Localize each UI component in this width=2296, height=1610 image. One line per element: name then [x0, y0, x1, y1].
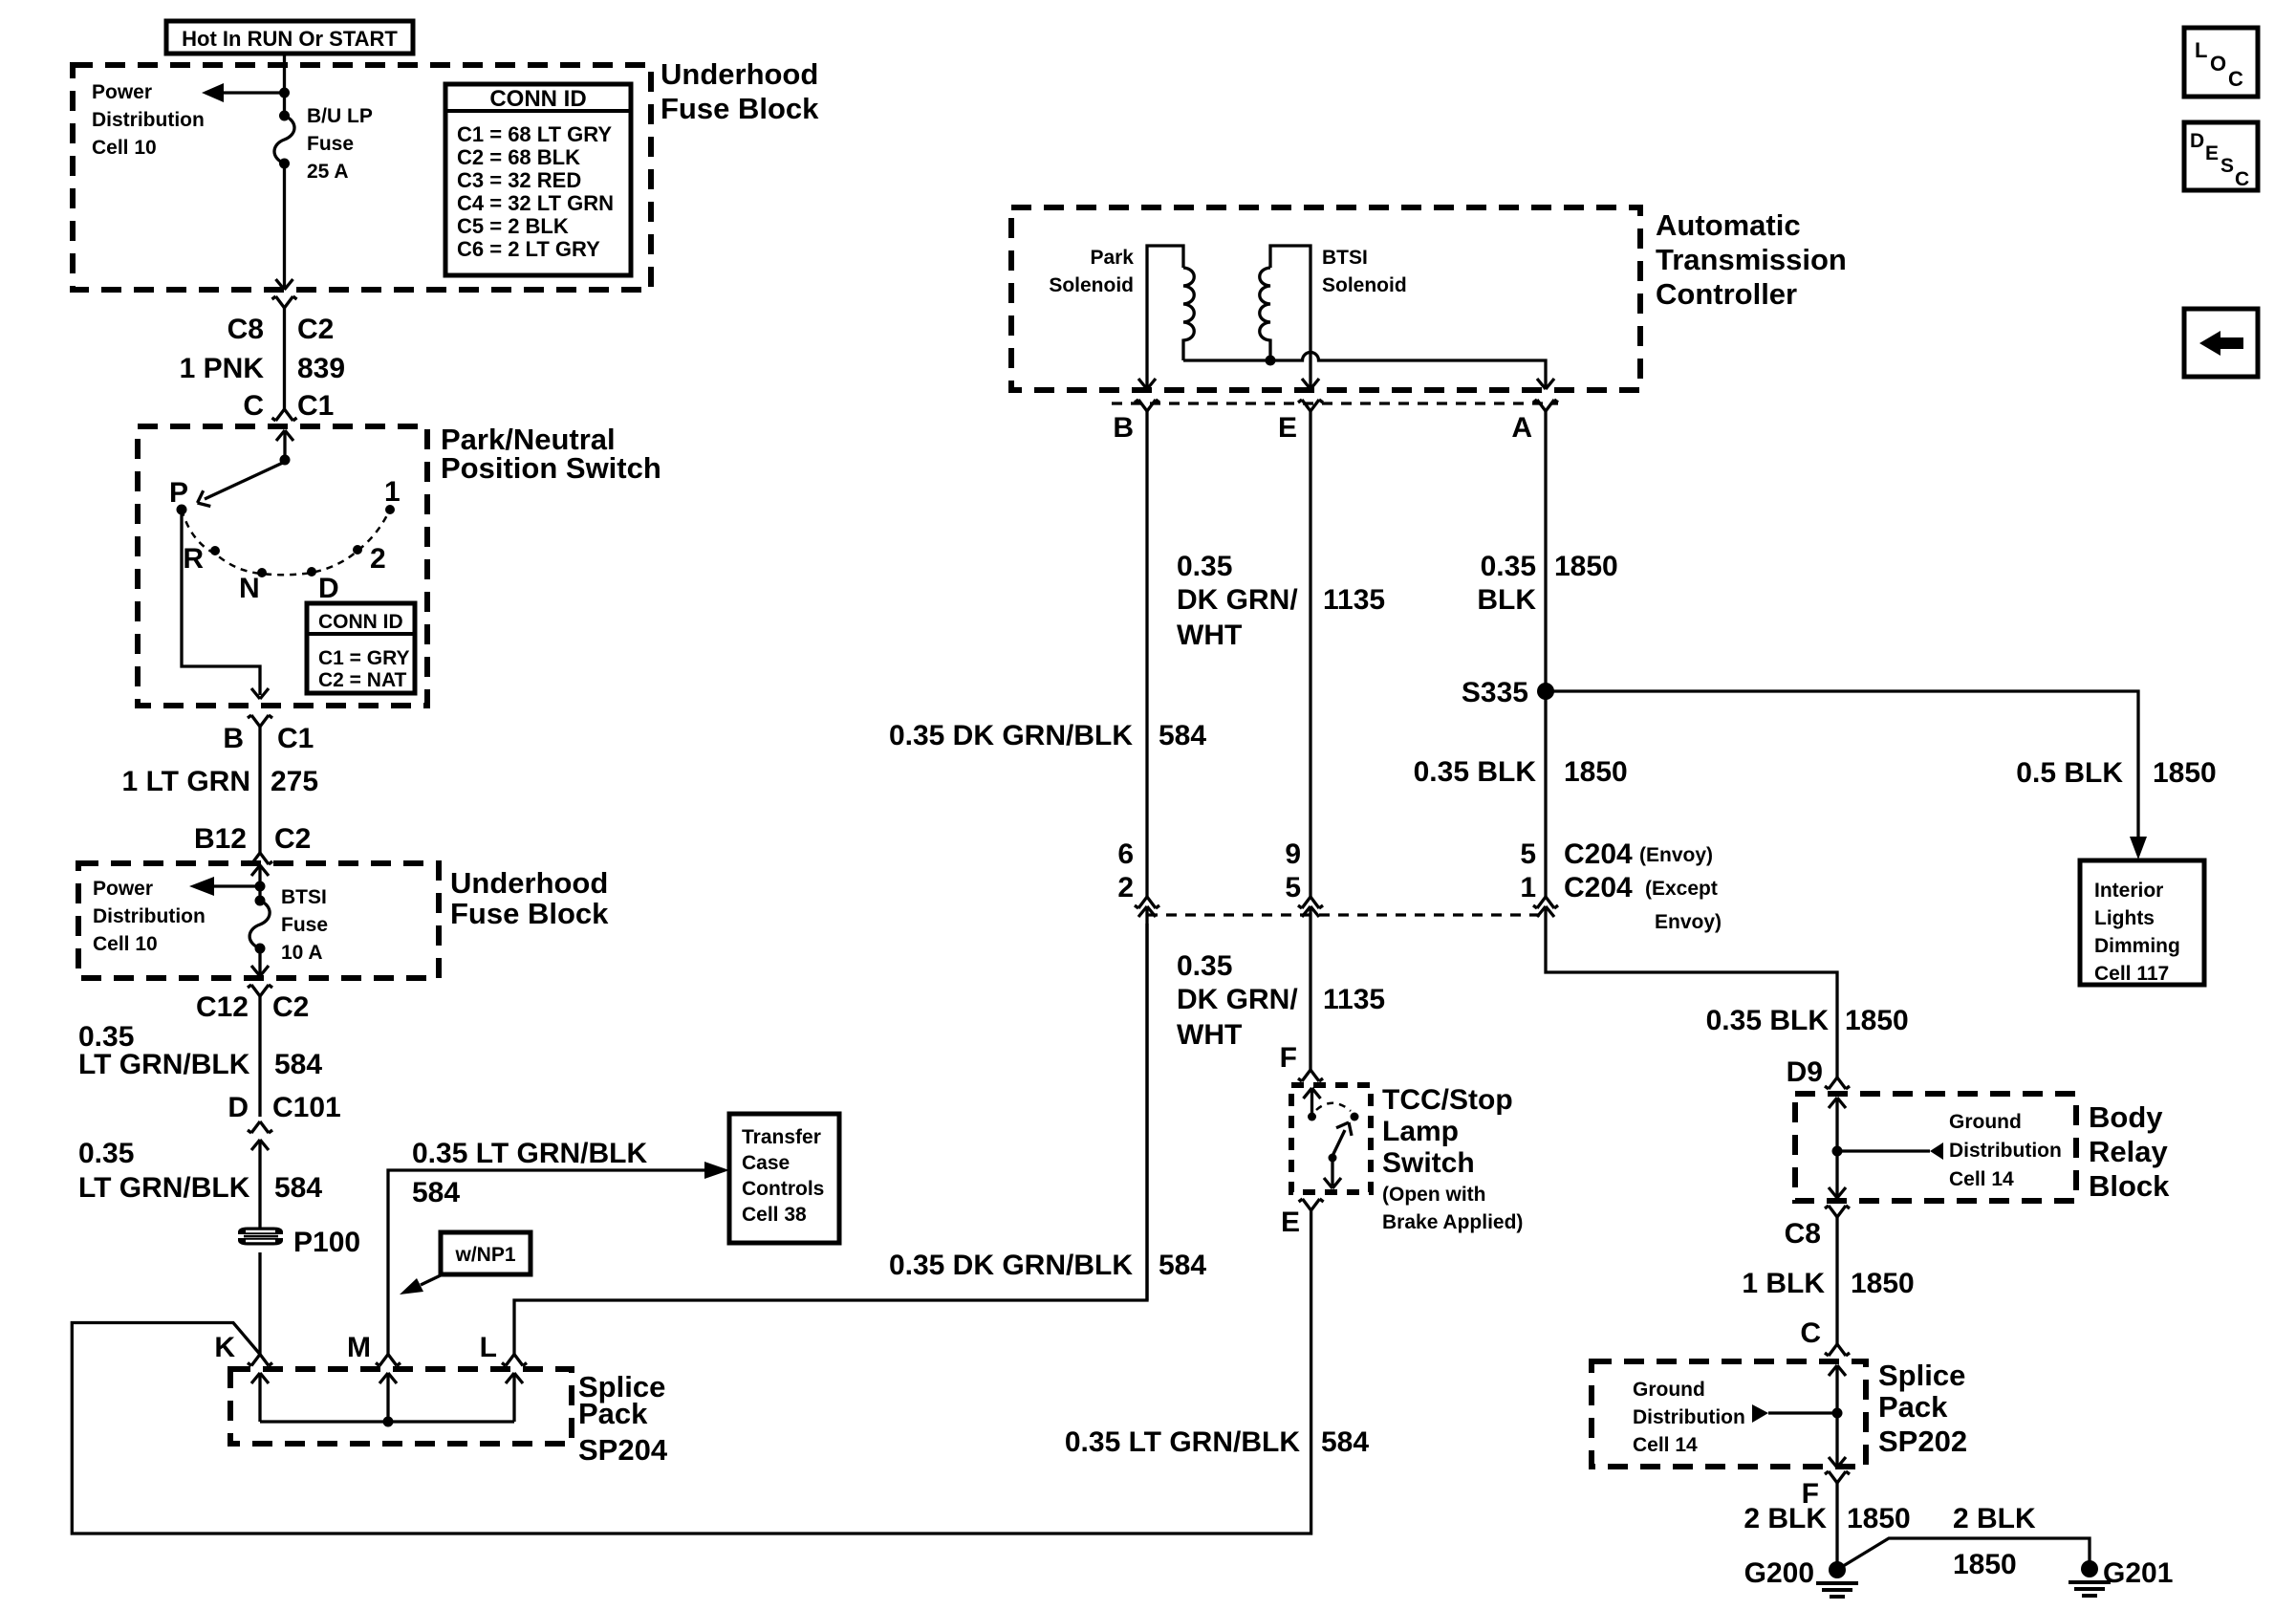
svg-text:DK GRN/: DK GRN/	[1177, 984, 1298, 1015]
svg-text:C4 = 32 LT GRN: C4 = 32 LT GRN	[457, 191, 614, 215]
connector fork pin A	[1533, 400, 1558, 411]
svg-text:C1: C1	[277, 723, 314, 754]
svg-text:CONN ID: CONN ID	[318, 611, 403, 633]
svg-text:1850: 1850	[1554, 551, 1618, 582]
svg-text:1135: 1135	[1323, 584, 1385, 616]
svg-text:B12: B12	[194, 823, 247, 855]
connector B/C1 fork	[248, 715, 272, 727]
svg-text:2 BLK: 2 BLK	[1953, 1503, 2036, 1534]
nav icon DESC	[2184, 122, 2258, 190]
label: 0.35 DK GRN/ WHT | 1135 (E wire lower)	[1177, 950, 1385, 1051]
TCC switch contacts and blade	[1308, 1113, 1316, 1121]
svg-text:0.35 LT GRN/BLK: 0.35 LT GRN/BLK	[1065, 1426, 1300, 1458]
svg-text:D9: D9	[1787, 1056, 1823, 1088]
svg-text:CONN ID: CONN ID	[489, 86, 586, 112]
svg-text:Fuse Block: Fuse Block	[450, 897, 609, 930]
label: BTSI Fuse 10 A	[281, 886, 328, 964]
svg-text:584: 584	[274, 1172, 322, 1204]
svg-text:Cell 14: Cell 14	[1949, 1168, 2014, 1190]
svg-text:(Open with: (Open with	[1382, 1184, 1486, 1206]
connector B12/C2 fork	[248, 853, 272, 864]
svg-text:M: M	[347, 1332, 371, 1363]
contact 2	[353, 545, 362, 555]
svg-text:1135: 1135	[1323, 984, 1385, 1015]
svg-text:Fuse: Fuse	[281, 914, 328, 936]
svg-text:G201: G201	[2103, 1557, 2173, 1589]
svg-text:Power: Power	[92, 81, 152, 103]
svg-text:839: 839	[297, 353, 345, 384]
nav icon LOC	[2184, 28, 2258, 97]
svg-text:SP204: SP204	[578, 1433, 668, 1467]
wire: branch to G201	[1840, 1538, 2090, 1569]
label: Ground Distribution Cell 14 (SP202)	[1633, 1379, 1745, 1456]
arrow+wire: branch from ground distribution into SP202 junction	[1752, 1404, 1768, 1423]
svg-text:C2 = 68 BLK: C2 = 68 BLK	[457, 145, 580, 169]
svg-text:O: O	[2210, 52, 2226, 76]
wire: fuse to block exit	[258, 948, 261, 974]
svg-text:9: 9	[1285, 838, 1301, 870]
svg-text:w/NP1: w/NP1	[454, 1244, 515, 1266]
svg-text:Cell 10: Cell 10	[92, 137, 157, 159]
arrow: wire enters TCC switch	[1304, 1088, 1321, 1099]
svg-text:1: 1	[1520, 872, 1536, 903]
svg-text:C: C	[2228, 67, 2243, 91]
svg-text:C204: C204	[1564, 872, 1633, 903]
splice pack SP204 (dashed box)	[230, 1369, 572, 1444]
svg-text:1850: 1850	[1845, 1005, 1909, 1036]
contact P	[177, 505, 187, 515]
svg-text:L: L	[480, 1332, 497, 1363]
wire: P100 to splice pack K	[258, 1252, 261, 1355]
svg-text:Underhood: Underhood	[450, 866, 608, 900]
splice pack SP202 (dashed box)	[1592, 1361, 1866, 1467]
svg-text:Solenoid: Solenoid	[1322, 274, 1407, 296]
body relay block (dashed box)	[1795, 1094, 2076, 1201]
contact R	[210, 546, 220, 555]
arrow: wire exits fuse block 2	[251, 966, 269, 976]
arrow from w/NP1 to M branch	[421, 1274, 443, 1285]
svg-text:C204: C204	[1564, 838, 1633, 870]
connector line under ATC	[1112, 402, 1558, 404]
wire: branch to power distribution with arrow	[208, 884, 260, 887]
connector C/C1 fork	[272, 409, 297, 421]
svg-text:C: C	[1800, 1317, 1821, 1349]
svg-text:Splice: Splice	[1878, 1359, 1965, 1392]
svg-text:Position Switch: Position Switch	[441, 451, 661, 485]
svg-text:P100: P100	[293, 1227, 360, 1258]
svg-text:WHT: WHT	[1177, 1019, 1242, 1051]
connector fork pin B	[1135, 400, 1159, 411]
svg-text:0.35 BLK: 0.35 BLK	[1706, 1005, 1830, 1036]
svg-text:Distribution: Distribution	[1633, 1406, 1745, 1428]
svg-text:584: 584	[1159, 720, 1206, 751]
svg-text:584: 584	[1159, 1250, 1206, 1281]
svg-text:C1: C1	[297, 390, 334, 422]
fuse F1: B/U LP Fuse 25 A	[279, 111, 290, 121]
svg-text:LT GRN/BLK: LT GRN/BLK	[78, 1172, 250, 1204]
svg-text:C2: C2	[272, 991, 309, 1023]
svg-text:584: 584	[412, 1177, 460, 1208]
svg-text:D: D	[227, 1092, 249, 1123]
dashed contact arc	[182, 510, 390, 575]
svg-text:584: 584	[1321, 1426, 1369, 1458]
svg-text:2 BLK: 2 BLK	[1744, 1503, 1827, 1534]
label: Park Solenoid	[1049, 247, 1134, 296]
svg-text:Transfer: Transfer	[742, 1126, 821, 1148]
svg-text:Fuse: Fuse	[307, 133, 354, 155]
svg-text:Fuse Block: Fuse Block	[661, 92, 819, 125]
svg-text:Body: Body	[2089, 1100, 2163, 1134]
contact 1	[385, 505, 395, 514]
svg-text:Lights: Lights	[2094, 907, 2155, 929]
wire: hot feed into fuse block	[283, 54, 286, 116]
svg-text:B: B	[223, 723, 244, 754]
connector C8 fork	[1825, 1206, 1850, 1217]
arrow: wire enters body relay block	[1829, 1098, 1846, 1108]
interior lights dimming box	[2080, 860, 2204, 985]
arrow: wire exits switch box	[251, 688, 269, 699]
wire: C2 to C101 segment	[258, 996, 261, 1117]
connector C101 fork	[248, 1121, 272, 1133]
label: 0.35 DK GRN/ WHT | 1135 (E wire upper)	[1177, 551, 1385, 651]
node: junction at power distribution tap	[279, 88, 290, 98]
wire: D9 stem to junction	[1835, 1098, 1838, 1196]
svg-text:Transmission: Transmission	[1656, 243, 1847, 276]
arrow into transfer case controls	[704, 1162, 729, 1179]
connector C204 fork pin 2/6	[1135, 897, 1159, 908]
svg-text:25 A: 25 A	[307, 161, 349, 183]
wire: blade lower contact to switch exit	[1331, 1158, 1333, 1186]
connector M fork	[376, 1355, 401, 1366]
contact N	[257, 568, 267, 577]
svg-text:(Envoy): (Envoy)	[1639, 844, 1713, 866]
svg-text:K: K	[214, 1332, 235, 1363]
svg-text:Park: Park	[1090, 247, 1134, 269]
connector C8/C2 fork	[272, 296, 297, 308]
svg-text:1: 1	[384, 476, 401, 508]
svg-text:Hot In RUN Or START: Hot In RUN Or START	[182, 27, 398, 51]
wire: C204 pin 1 down and over to body relay block D9	[1546, 906, 1837, 1077]
svg-text:Distribution: Distribution	[93, 905, 206, 927]
svg-text:Lamp: Lamp	[1382, 1116, 1459, 1147]
svg-text:0.35: 0.35	[1177, 551, 1232, 582]
svg-text:Controls: Controls	[742, 1178, 824, 1200]
label: Ground Distribution Cell 14 (body relay block)	[1949, 1111, 2062, 1190]
svg-text:275: 275	[271, 766, 318, 797]
TCC/stop lamp switch (dashed box)	[1291, 1085, 1371, 1192]
connector E fork below TCC switch	[1299, 1199, 1324, 1210]
svg-text:C2 = NAT: C2 = NAT	[318, 669, 407, 691]
arrow: wire exits TCC switch	[1324, 1178, 1341, 1188]
svg-text:Cell 10: Cell 10	[93, 933, 158, 955]
wire: L branch from B column	[514, 924, 1147, 1355]
arrow: wire enters fuse block 2	[251, 865, 269, 876]
svg-text:Pack: Pack	[1878, 1390, 1948, 1424]
svg-text:1850: 1850	[2153, 757, 2217, 789]
svg-text:6: 6	[1117, 838, 1134, 870]
svg-text:C2: C2	[297, 314, 334, 345]
svg-text:F: F	[1280, 1042, 1297, 1074]
node: junction at power distribution tap	[255, 881, 266, 892]
node: junction in body relay block	[1832, 1146, 1843, 1157]
wire: entry to fuse	[258, 865, 261, 901]
svg-text:Dimming: Dimming	[2094, 935, 2180, 957]
svg-text:B/U LP: B/U LP	[307, 105, 373, 127]
svg-text:Pack: Pack	[578, 1397, 648, 1430]
svg-text:5: 5	[1520, 838, 1536, 870]
title: TCC/Stop Lamp Switch	[1382, 1084, 1523, 1233]
svg-text:Interior: Interior	[2094, 880, 2163, 902]
svg-text:C: C	[243, 390, 264, 422]
arrow: M lead into SP204	[379, 1373, 397, 1383]
svg-text:C101: C101	[272, 1092, 341, 1123]
svg-text:Underhood: Underhood	[661, 57, 818, 91]
svg-text:2: 2	[1117, 872, 1134, 903]
ground G201	[2069, 1560, 2111, 1596]
contact D	[307, 567, 316, 577]
arrow: L lead into SP204	[506, 1373, 523, 1383]
arrow into interior lights dimming	[2130, 837, 2147, 859]
title: Splice Pack SP202	[1878, 1359, 1967, 1458]
CONN ID table 1	[445, 84, 631, 275]
wire: pin B down to connector C204	[1145, 411, 1148, 897]
connector C204 fork pin 5/9	[1298, 897, 1323, 908]
ground G200	[1816, 1561, 1858, 1597]
svg-text:Cell 14: Cell 14	[1633, 1434, 1698, 1456]
svg-text:2: 2	[370, 543, 386, 575]
arrow: wire exits fuse block 1	[276, 279, 293, 290]
svg-text:E: E	[1278, 412, 1297, 444]
connector F fork	[1825, 1471, 1850, 1483]
svg-text:R: R	[183, 543, 204, 575]
svg-text:0.35 DK GRN/BLK: 0.35 DK GRN/BLK	[889, 720, 1133, 751]
wire: splice bus	[260, 1420, 514, 1423]
svg-text:Ground: Ground	[1633, 1379, 1705, 1401]
svg-text:BLK: BLK	[1477, 584, 1536, 616]
svg-text:L: L	[2195, 38, 2207, 62]
svg-text:C3 = 32 RED: C3 = 32 RED	[457, 168, 581, 192]
wire: fuse to block exit	[283, 163, 286, 288]
svg-text:WHT: WHT	[1177, 620, 1242, 651]
wire: E column below C204 down to TCC switch F	[1309, 906, 1311, 1070]
svg-text:C8: C8	[227, 314, 264, 345]
svg-text:E: E	[1281, 1207, 1300, 1238]
wire: through SP202	[1835, 1365, 1838, 1466]
wire: C1 to C2 segment	[258, 727, 261, 853]
node: SP202 junction	[1832, 1408, 1843, 1419]
svg-text:1850: 1850	[1847, 1503, 1911, 1534]
wire: solenoid common bus with hop over E leg	[1183, 353, 1546, 388]
wire: P contact to switch output	[182, 514, 260, 695]
wire: branch to ground distribution (body relay block)	[1837, 1149, 1930, 1152]
svg-text:C1 = GRY: C1 = GRY	[318, 647, 410, 669]
svg-text:N: N	[239, 573, 260, 604]
label: Power Distribution Cell 10	[92, 81, 205, 159]
svg-text:Switch: Switch	[1382, 1147, 1475, 1179]
wire: pin E down to connector C204	[1309, 411, 1311, 897]
wire: pin A down to S335	[1544, 411, 1547, 691]
svg-text:C8: C8	[1785, 1218, 1821, 1250]
svg-text:Automatic: Automatic	[1656, 208, 1801, 242]
nav icon back arrow	[2184, 309, 2258, 377]
arrow: wire exits SP202	[1829, 1457, 1846, 1468]
svg-text:S335: S335	[1462, 677, 1528, 708]
grommet P100	[238, 1228, 283, 1246]
automatic transmission controller (dashed box)	[1011, 207, 1640, 390]
node S335	[1537, 683, 1554, 700]
arrow: pin B exits ATC	[1138, 379, 1156, 389]
wire: F to ground G200	[1835, 1483, 1838, 1570]
svg-text:1850: 1850	[1953, 1549, 2017, 1580]
node: switch pivot	[280, 455, 291, 466]
svg-text:D: D	[2190, 130, 2204, 152]
svg-text:1 PNK: 1 PNK	[180, 353, 265, 384]
connector L fork	[502, 1355, 527, 1366]
svg-text:0.35: 0.35	[78, 1138, 134, 1169]
svg-text:0.35 LT GRN/BLK: 0.35 LT GRN/BLK	[412, 1138, 647, 1169]
connector fork pin E	[1298, 400, 1323, 411]
title: Body Relay Block	[2089, 1100, 2170, 1203]
svg-text:Envoy): Envoy)	[1655, 911, 1722, 933]
arrow: C101 mating half	[251, 1140, 269, 1150]
wire: C8 to C	[1835, 1217, 1838, 1344]
connector D9 fork	[1825, 1077, 1850, 1089]
underhood fuse block 1 (dashed box)	[73, 65, 651, 290]
svg-text:0.35 DK GRN/BLK: 0.35 DK GRN/BLK	[889, 1250, 1133, 1281]
BTSI solenoid L2	[1270, 246, 1310, 387]
wire: M lead	[386, 1373, 389, 1422]
svg-text:D: D	[318, 573, 339, 604]
underhood fuse block 2 (dashed box)	[78, 863, 439, 978]
label: BTSI Solenoid	[1322, 247, 1407, 296]
wire: C2 to C1 segment	[283, 308, 286, 409]
svg-text:10 A: 10 A	[281, 942, 323, 964]
title: Splice Pack SP204	[578, 1370, 668, 1467]
svg-text:5: 5	[1285, 872, 1301, 903]
svg-text:C1 = 68 LT GRY: C1 = 68 LT GRY	[457, 122, 612, 146]
arrow: wire enters park/neutral switch	[276, 430, 293, 441]
svg-text:C5 = 2 BLK: C5 = 2 BLK	[457, 214, 569, 238]
label: 0.35 BLK | 1850 (A wire upper)	[1477, 551, 1617, 616]
arrow: pin E exits ATC	[1302, 379, 1319, 389]
svg-text:LT GRN/BLK: LT GRN/BLK	[78, 1049, 250, 1080]
connector C12/C2 fork	[248, 985, 272, 996]
label: Power Distribution Cell 10	[93, 878, 206, 955]
svg-text:0.35: 0.35	[1177, 950, 1232, 982]
wire: C101 to P100	[258, 1140, 261, 1232]
title: Underhood Fuse Block	[450, 866, 609, 930]
wire: K lead	[258, 1373, 261, 1422]
svg-text:A: A	[1511, 412, 1532, 444]
svg-text:Relay: Relay	[2089, 1135, 2168, 1168]
svg-text:SP202: SP202	[1878, 1425, 1967, 1458]
svg-text:Power: Power	[93, 878, 153, 900]
svg-text:0.5 BLK: 0.5 BLK	[2016, 757, 2123, 789]
power feed label box: Hot In RUN Or START	[166, 21, 413, 54]
inline connector C204 (dashed line)	[1147, 913, 1546, 916]
park/neutral position switch (dashed box)	[138, 426, 427, 706]
svg-text:1 LT GRN: 1 LT GRN	[122, 766, 250, 797]
wire: S335 branch to interior lights dimming	[1546, 691, 2138, 853]
connector F fork	[1298, 1070, 1323, 1081]
wire: big loop from TCC switch E to splice pack K	[72, 1210, 1310, 1534]
node: splice junction	[383, 1417, 394, 1427]
wire: switch feed stem	[283, 430, 286, 460]
svg-text:E: E	[2205, 142, 2219, 164]
transfer case controls box	[729, 1114, 839, 1243]
svg-text:584: 584	[274, 1049, 322, 1080]
svg-text:0.35 BLK: 0.35 BLK	[1414, 756, 1537, 788]
svg-text:BTSI: BTSI	[1322, 247, 1368, 269]
option tag w/NP1	[441, 1232, 531, 1274]
node: bus junction at BTSI coil	[1266, 356, 1276, 366]
wire: L lead	[512, 1373, 515, 1422]
title: Park/Neutral Position Switch	[441, 423, 661, 485]
arrow: wire enters SP202	[1829, 1365, 1846, 1376]
wire: branch to power distribution with arrow	[222, 91, 285, 94]
connector C fork	[1825, 1344, 1850, 1356]
svg-text:Distribution: Distribution	[1949, 1140, 2062, 1162]
svg-text:1850: 1850	[1564, 756, 1628, 788]
svg-text:Cell 117: Cell 117	[2094, 963, 2169, 985]
arrow: K lead into SP204	[251, 1373, 269, 1383]
svg-text:Ground: Ground	[1949, 1111, 2022, 1133]
svg-text:C2: C2	[274, 823, 311, 855]
svg-text:C: C	[2235, 168, 2249, 190]
svg-text:Controller: Controller	[1656, 277, 1797, 311]
title: Automatic Transmission Controller	[1656, 208, 1847, 311]
svg-text:DK GRN/: DK GRN/	[1177, 584, 1298, 616]
svg-text:TCC/Stop: TCC/Stop	[1382, 1084, 1513, 1116]
CONN ID table 2	[307, 603, 415, 693]
svg-text:Cell 38: Cell 38	[742, 1204, 807, 1226]
svg-text:Block: Block	[2089, 1169, 2170, 1203]
label: B/U LP Fuse 25 A	[307, 105, 373, 183]
svg-text:B: B	[1113, 412, 1134, 444]
svg-text:(Except: (Except	[1645, 878, 1718, 900]
svg-text:Solenoid: Solenoid	[1049, 274, 1134, 296]
svg-text:C6 = 2 LT GRY: C6 = 2 LT GRY	[457, 237, 600, 261]
park solenoid L1	[1147, 246, 1183, 387]
switch blade with arrowhead to P	[205, 462, 285, 499]
wire: F stem to contact	[1310, 1088, 1313, 1117]
svg-text:1850: 1850	[1851, 1268, 1915, 1299]
connector C204 fork pin 1/5	[1533, 897, 1558, 908]
title: Underhood Fuse Block	[661, 57, 819, 125]
arrow: wire exits body relay block	[1829, 1187, 1846, 1198]
svg-text:Brake Applied): Brake Applied)	[1382, 1211, 1523, 1233]
wire: S335 down to C204	[1544, 691, 1547, 897]
wire: B column below C204	[1145, 906, 1148, 1300]
arrow: pin A exits ATC	[1537, 379, 1554, 389]
fuse F2: BTSI Fuse 10 A	[255, 896, 266, 906]
svg-text:1 BLK: 1 BLK	[1742, 1268, 1825, 1299]
svg-text:S: S	[2220, 155, 2234, 177]
svg-text:Distribution: Distribution	[92, 109, 205, 131]
svg-text:G200: G200	[1744, 1557, 1814, 1589]
connector K fork	[248, 1355, 272, 1366]
svg-text:P: P	[169, 477, 188, 509]
wire: M branch up to transfer case controls	[388, 1170, 707, 1355]
svg-text:0.35: 0.35	[1481, 551, 1536, 582]
svg-text:Case: Case	[742, 1152, 790, 1174]
svg-text:C12: C12	[196, 991, 249, 1023]
svg-text:BTSI: BTSI	[281, 886, 327, 908]
